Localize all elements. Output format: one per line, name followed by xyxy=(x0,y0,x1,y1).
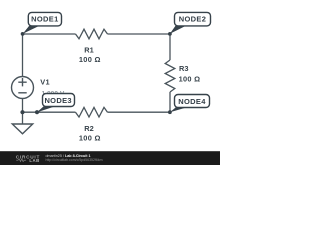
resistor R1 xyxy=(76,29,108,39)
svg-text:http://circuitlab.com/c/5pd563: http://circuitlab.com/c/5pd56352f6km xyxy=(46,158,103,162)
node NODE2 xyxy=(170,12,211,33)
wire left vertical: NODE1 corner down to V1 top xyxy=(22,34,24,77)
wire bottom: R2 to NODE4 corner xyxy=(108,111,171,113)
svg-text:100 Ω: 100 Ω xyxy=(179,74,201,83)
resistor R3 xyxy=(165,60,175,92)
node NODE4 xyxy=(170,95,210,113)
svg-text:NODE4: NODE4 xyxy=(178,97,206,106)
voltage source V1 xyxy=(12,77,34,99)
svg-text:V1: V1 xyxy=(40,77,50,86)
V1 minus sign xyxy=(18,92,26,94)
junction dot NODE2 corner xyxy=(168,32,172,36)
resistor R2 xyxy=(76,107,108,117)
junction dot NODE4 corner xyxy=(168,110,172,114)
wire left vertical: V1 bottom down to ground junction xyxy=(22,99,24,113)
junction dot NODE3 xyxy=(35,110,39,114)
wire right vertical: R3 down to NODE4 corner xyxy=(169,92,171,112)
node NODE1 xyxy=(23,12,62,33)
svg-text:NODE2: NODE2 xyxy=(179,15,207,24)
wire top: R1 to NODE2 corner xyxy=(108,33,171,35)
wire top: NODE1 corner to R1 xyxy=(23,33,76,35)
svg-text:NODE1: NODE1 xyxy=(31,15,59,24)
V1 plus sign xyxy=(18,78,26,86)
junction dot NODE1 corner xyxy=(21,32,25,36)
ground xyxy=(22,112,24,124)
node NODE3 xyxy=(37,94,75,113)
svg-text:R3: R3 xyxy=(179,64,188,73)
footer bar xyxy=(0,151,220,165)
wire right vertical: NODE2 corner down to R3 xyxy=(169,34,171,60)
junction dot ground xyxy=(20,110,24,114)
footer logo waveform xyxy=(16,159,26,162)
svg-text:LAB: LAB xyxy=(29,158,39,163)
wire bottom: junction to R2 xyxy=(23,111,76,113)
svg-text:100 Ω: 100 Ω xyxy=(79,55,101,64)
svg-text:R2: R2 xyxy=(84,124,93,133)
svg-text:NODE3: NODE3 xyxy=(44,96,72,105)
svg-text:R1: R1 xyxy=(84,46,93,55)
svg-text:100 Ω: 100 Ω xyxy=(79,134,101,143)
